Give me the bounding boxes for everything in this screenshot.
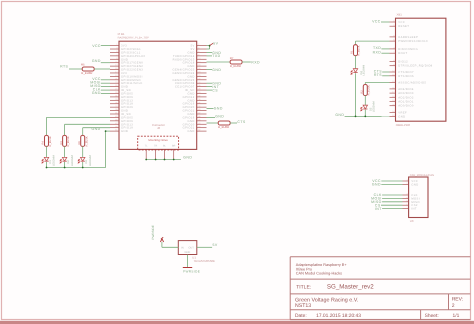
wire U1 GND down xyxy=(187,255,189,268)
svg-text:R4: R4 xyxy=(42,141,45,145)
net label GND (pin 30) xyxy=(207,108,214,110)
svg-text:GND: GND xyxy=(92,127,101,131)
wire GND 2 xyxy=(101,93,110,95)
wire XBee GND rail xyxy=(345,115,390,117)
svg-text:Mounting Holes: Mounting Holes xyxy=(148,138,168,142)
wire GPIO pin to LED column D1 xyxy=(47,116,111,118)
svg-text:DIO12: DIO12 xyxy=(398,61,408,64)
svg-text:LED3MM: LED3MM xyxy=(89,155,92,166)
net label TXD xyxy=(207,55,213,57)
svg-text:AD3/DIO3: AD3/DIO3 xyxy=(398,92,414,95)
wire R2 to LED D5 xyxy=(364,96,366,106)
wire D1 cathode to GND rail xyxy=(46,162,48,168)
net label INT xyxy=(207,86,213,88)
svg-text:R_EU1K: R_EU1K xyxy=(358,45,361,55)
junction dots on mounting hole rail xyxy=(145,159,147,161)
wire R1 to LED D4 xyxy=(355,56,357,69)
svg-text:TEXASTR05S0E: TEXASTR05S0E xyxy=(194,259,215,263)
wire INT to CAN pin xyxy=(382,208,402,210)
wire CS to CAN pin xyxy=(381,204,403,206)
wire D4 cathode to XBee GND rail xyxy=(355,73,357,116)
wire PWRSIDE to U1 IN xyxy=(161,242,163,247)
svg-text:PI B1: PI B1 xyxy=(118,32,125,36)
LED D3 LED3MM xyxy=(78,157,85,163)
svg-text:PWRSIDE: PWRSIDE xyxy=(151,225,155,239)
resistor R5 body xyxy=(82,67,94,71)
wire TXD xyxy=(381,48,389,50)
wire R7 to RXD label xyxy=(242,61,251,63)
wire R5 to pin GPIO17 xyxy=(94,68,110,70)
svg-text:IN: IN xyxy=(181,246,184,249)
svg-text:5V: 5V xyxy=(213,243,218,247)
svg-text:GND: GND xyxy=(398,116,405,119)
svg-text:RXD: RXD xyxy=(373,50,382,54)
junction 5V xyxy=(209,45,211,47)
LED D2 LED3MM xyxy=(60,157,67,163)
svg-text:RTS: RTS xyxy=(374,73,382,77)
wire LED GND rail xyxy=(47,167,106,169)
svg-text:R_EU1K: R_EU1K xyxy=(49,136,52,146)
supply 5V arrow xyxy=(210,43,214,45)
supply symbol PWRSIDE (ground bar) xyxy=(183,267,192,269)
svg-text:R7: R7 xyxy=(230,56,234,60)
wire VCC to CAN pin xyxy=(381,180,402,182)
svg-text:XB1: XB1 xyxy=(397,13,403,17)
wire R6 to D3 xyxy=(82,146,84,157)
svg-text:Sheet:: Sheet: xyxy=(425,313,439,319)
wire CLK to CAN pin xyxy=(382,194,402,196)
wire GPIO pin to LED column D3 xyxy=(83,127,110,129)
wire RTS xyxy=(382,75,389,77)
wire D3 cathode to GND rail xyxy=(82,162,84,168)
svg-text:TITLE:: TITLE: xyxy=(296,284,311,290)
svg-text:AD0/DIO0: AD0/DIO0 xyxy=(398,105,414,108)
wire VCC to pin 1 xyxy=(101,45,110,47)
svg-text:BR: BR xyxy=(172,144,176,147)
svg-text:VCC: VCC xyxy=(372,19,381,23)
svg-text:ASSOC/AD5/DIO5: ASSOC/AD5/DIO5 xyxy=(398,82,426,85)
svg-text:LED3MM: LED3MM xyxy=(53,155,56,166)
svg-text:VCC: VCC xyxy=(92,44,101,48)
svg-text:PWRSIDE: PWRSIDE xyxy=(183,269,200,273)
svg-text:TXD: TXD xyxy=(373,46,381,50)
wire GPIO pin to LED column D2 xyxy=(65,123,110,125)
svg-text:LED3MM: LED3MM xyxy=(372,101,375,112)
wire RXD xyxy=(381,52,389,54)
svg-text:RASPBERRY_PI_B+_TOP: RASPBERRY_PI_B+_TOP xyxy=(118,37,150,40)
svg-text:R_EU1K: R_EU1K xyxy=(67,136,70,146)
svg-text:D1: D1 xyxy=(49,160,52,164)
junction dots LED rail xyxy=(46,167,48,169)
wire resistor to CTS label xyxy=(230,122,237,124)
resistor R6 R_EU1K xyxy=(81,135,85,146)
svg-text:J8: J8 xyxy=(157,126,160,130)
svg-text:TXD: TXD xyxy=(212,54,220,58)
wire GND left xyxy=(101,62,110,64)
wire mounting holes GND rail xyxy=(146,159,181,161)
wire VCC 2 xyxy=(101,79,110,81)
net label GND (pin 6) xyxy=(207,51,213,53)
svg-text:Date:: Date: xyxy=(295,313,307,319)
svg-text:GND: GND xyxy=(121,130,128,133)
svg-text:R_EU1K: R_EU1K xyxy=(368,85,371,95)
wire MISO to CAN pin xyxy=(382,201,402,203)
wire MOSI xyxy=(101,82,110,84)
wire MISO xyxy=(101,86,110,88)
net label GND (pin 14) xyxy=(207,69,213,71)
svg-text:U3: U3 xyxy=(410,219,414,223)
svg-text:R6: R6 xyxy=(78,141,81,145)
svg-text:R5: R5 xyxy=(81,63,85,67)
svg-text:OUT: OUT xyxy=(188,246,194,249)
LED D4 LED3MM xyxy=(351,69,358,75)
svg-text:GND: GND xyxy=(215,115,224,119)
connector U3 CAN_MODULE/CAN xyxy=(403,174,435,223)
wire D2 cathode to GND rail xyxy=(64,162,66,168)
resistor R1 body xyxy=(354,45,358,56)
svg-text:GND: GND xyxy=(212,68,221,72)
svg-text:R_EU1K: R_EU1K xyxy=(85,136,88,146)
svg-text:GND: GND xyxy=(185,251,191,254)
wire MOSI to CAN pin xyxy=(382,197,402,199)
svg-text:RESET: RESET xyxy=(398,25,409,28)
svg-text:DIN/CONFIG: DIN/CONFIG xyxy=(398,48,418,51)
wire RTS to resistor R5 xyxy=(69,68,82,70)
svg-text:2: 2 xyxy=(452,303,455,309)
svg-text:GND: GND xyxy=(214,107,223,111)
svg-text:RTS: RTS xyxy=(60,65,68,69)
wire XBee ASSOC pin to R2 xyxy=(365,82,389,84)
wire U1 OUT to 5V xyxy=(197,246,212,248)
resistor R4 R_EU1K xyxy=(45,135,49,146)
wire CTS xyxy=(382,71,389,73)
wire 5V pins 2 and 4 xyxy=(207,45,210,47)
svg-text:CTS: CTS xyxy=(237,120,245,124)
svg-text:SG_Master_rev2: SG_Master_rev2 xyxy=(327,284,374,291)
svg-text:GND: GND xyxy=(92,59,101,63)
svg-text:RXD: RXD xyxy=(251,60,260,64)
resistor R3 R_EU1K xyxy=(63,135,67,146)
LED D1 LED3MM xyxy=(42,157,49,163)
wire RXD pin to resistor R7 xyxy=(207,61,231,63)
svg-text:INT: INT xyxy=(375,207,382,211)
svg-text:R_EU0R: R_EU0R xyxy=(218,125,229,129)
wire R4 to D1 xyxy=(46,146,48,157)
svg-text:CAN_MODULE/CAN: CAN_MODULE/CAN xyxy=(410,174,434,177)
svg-text:INT: INT xyxy=(411,208,417,211)
svg-text:LED3MM: LED3MM xyxy=(71,155,74,166)
svg-text:DOUT: DOUT xyxy=(398,52,407,55)
net label GND (pin 20) xyxy=(207,82,213,84)
wire GND to CAN pin xyxy=(381,184,402,186)
svg-text:17.01.2015 18:20:43: 17.01.2015 18:20:43 xyxy=(316,313,361,319)
svg-text:GND: GND xyxy=(372,183,381,187)
svg-text:R1: R1 xyxy=(351,50,354,54)
svg-text:GND: GND xyxy=(335,113,344,117)
svg-text:AD1/DIO1: AD1/DIO1 xyxy=(398,101,414,104)
svg-text:R_EU0R: R_EU0R xyxy=(81,71,92,75)
title block frame xyxy=(290,257,470,320)
resistor R2 body xyxy=(363,85,367,96)
mounting holes sub-symbol (TL TR BL BR) xyxy=(138,136,179,159)
svg-text:VCC: VCC xyxy=(398,21,405,24)
wire CLK xyxy=(101,89,110,91)
regulator U1 TEXASTR05S0E xyxy=(178,241,215,263)
svg-text:5V: 5V xyxy=(213,42,218,46)
svg-text:AD4/DIO4: AD4/DIO4 xyxy=(398,88,414,91)
wire VCC to XBee pin 1 xyxy=(381,21,390,23)
net label CS xyxy=(207,89,213,91)
svg-text:VREF: VREF xyxy=(398,112,407,115)
svg-text:RTS/DIO6: RTS/DIO6 xyxy=(398,75,414,78)
svg-text:PWM0/RSSI/DIO10: PWM0/RSSI/DIO10 xyxy=(398,40,428,43)
resistor R7 body xyxy=(230,60,242,64)
svg-text:GND: GND xyxy=(183,156,192,160)
svg-text:CS: CS xyxy=(212,88,218,92)
wire R3 to D2 xyxy=(64,146,66,157)
svg-text:R2: R2 xyxy=(361,90,364,94)
connector PI B1 Raspberry Pi B+ GPIO header J8 xyxy=(110,32,207,149)
wire D5 cathode to XBee GND rail xyxy=(364,110,366,117)
junction GND riser xyxy=(105,130,107,132)
svg-text:D3: D3 xyxy=(85,160,88,164)
svg-text:CAN Modul Cooking-Hacks: CAN Modul Cooking-Hacks xyxy=(296,271,342,275)
junction dots XBee GND rail xyxy=(355,116,357,118)
svg-text:CTS/DIO7: CTS/DIO7 xyxy=(398,71,414,74)
svg-text:AD2/DIO2: AD2/DIO2 xyxy=(398,96,414,99)
supply symbol PWRSIDE (input) xyxy=(160,237,163,242)
svg-text:R_EU0R: R_EU0R xyxy=(230,64,241,68)
LED D5 LED3MM xyxy=(361,105,368,111)
resistor R8 body xyxy=(218,121,230,125)
svg-text:R3: R3 xyxy=(60,141,63,145)
svg-text:DTR/SLEEP_RQ/DIO8: DTR/SLEEP_RQ/DIO8 xyxy=(398,65,432,68)
svg-text:GND: GND xyxy=(188,130,195,133)
wire CTS pin to resistor xyxy=(207,122,219,124)
svg-text:GND: GND xyxy=(92,91,101,95)
svg-text:REV:: REV: xyxy=(452,297,463,303)
svg-text:D2: D2 xyxy=(67,160,70,164)
svg-text:XBEE-PRO: XBEE-PRO xyxy=(396,123,411,127)
wire XBee RSSI pin to R1 xyxy=(356,40,390,42)
svg-text:LED3MM: LED3MM xyxy=(363,65,366,76)
svg-text:NST13: NST13 xyxy=(295,303,311,309)
module XB1 XBEE-PRO xyxy=(390,13,446,127)
svg-text:HARDSLEEP: HARDSLEEP xyxy=(398,36,418,39)
net label GND (pin 34) xyxy=(207,117,216,119)
svg-text:TR: TR xyxy=(154,144,157,147)
svg-text:GND: GND xyxy=(411,184,418,187)
svg-text:1/1: 1/1 xyxy=(453,313,460,319)
wire GND riser to pin 39 xyxy=(105,131,107,167)
